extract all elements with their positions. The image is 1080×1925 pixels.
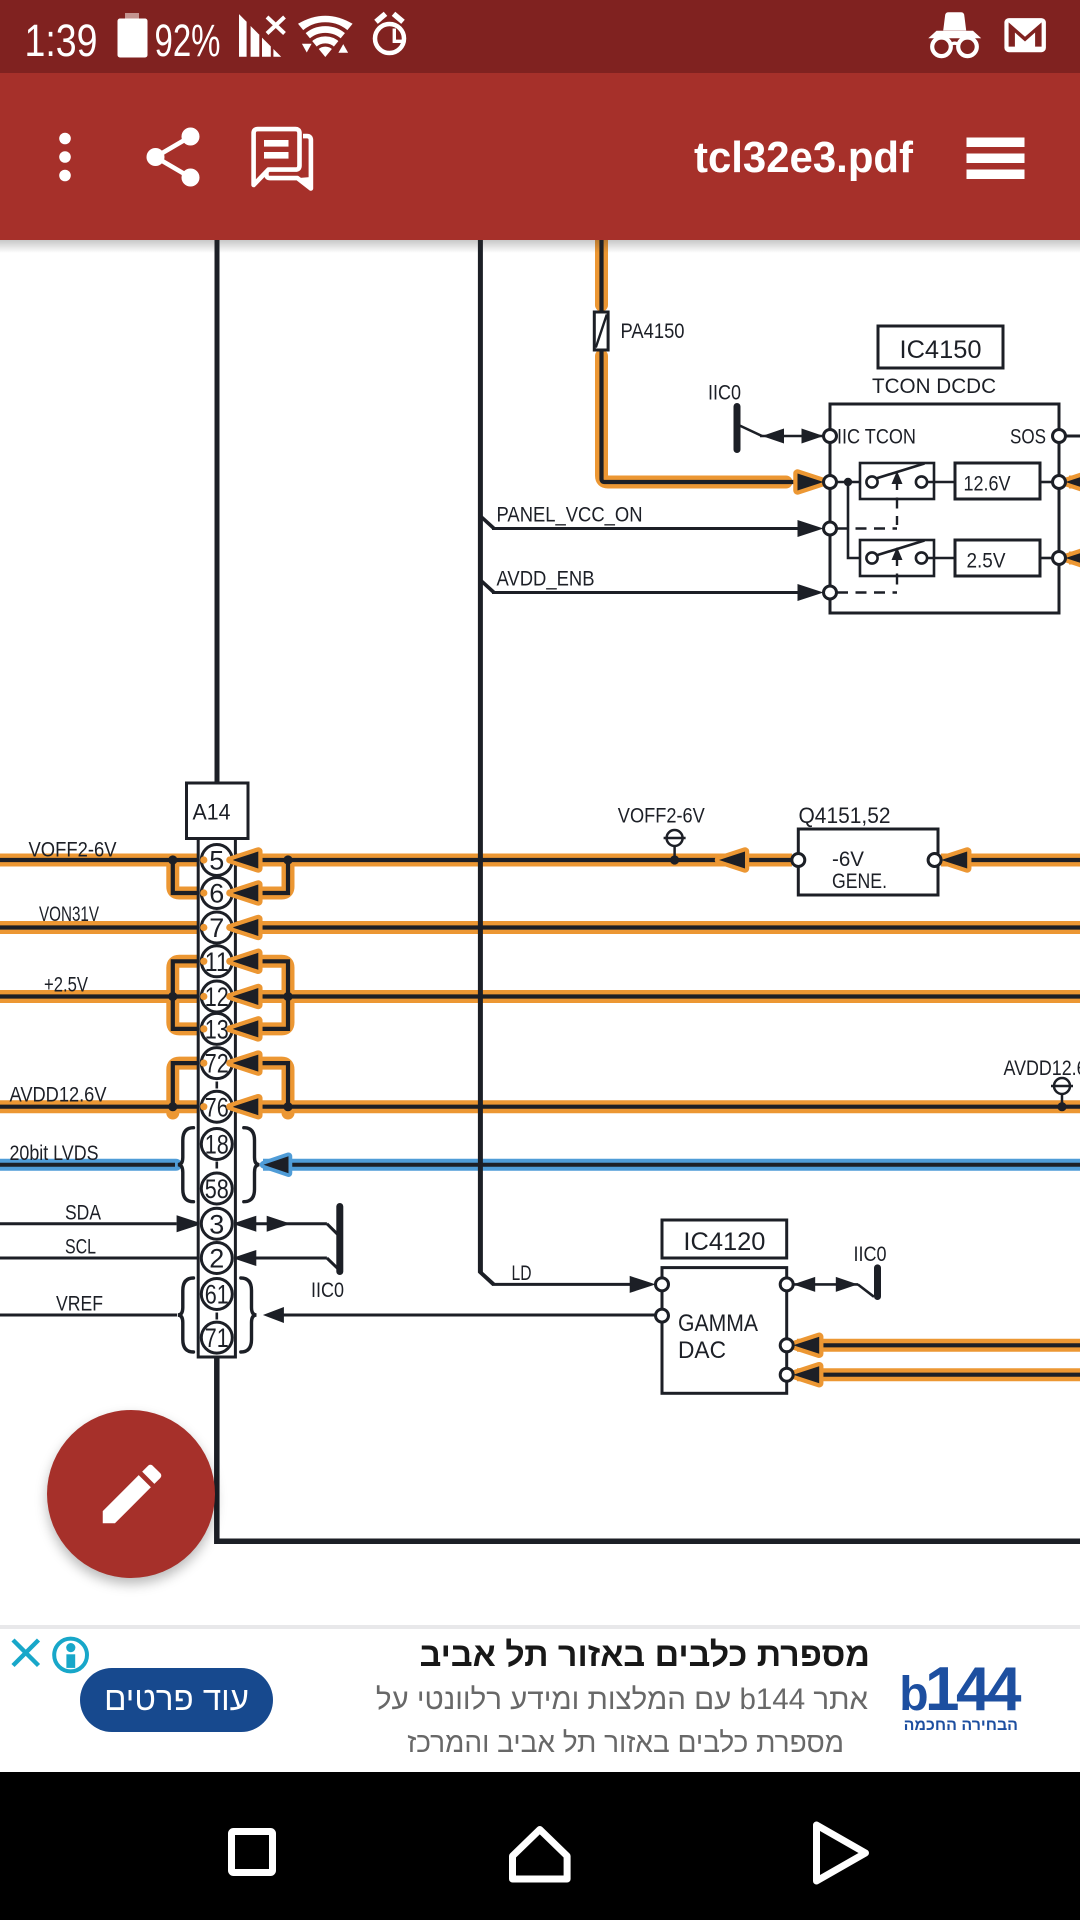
status bar xyxy=(0,0,1080,73)
pin 3 of A14 xyxy=(201,1208,232,1239)
wire highlight: +2.5V left loop pins 11-13 xyxy=(173,961,200,1029)
svg-text:IC4120: IC4120 xyxy=(683,1228,765,1256)
arrow VREF into right brace xyxy=(263,1307,284,1323)
wire LD horizontal into GAMMA DAC xyxy=(492,1283,631,1286)
pin PANEL_VCC_ON xyxy=(824,522,837,535)
wire core VOFF2-6V right loop xyxy=(258,860,288,893)
arrow IIC0 right at GAMMA DAC xyxy=(836,1277,858,1292)
svg-text:VOFF2-6V: VOFF2-6V xyxy=(29,839,117,862)
pin 12 of A14 xyxy=(201,981,232,1012)
wire 2.5V box to pin xyxy=(1040,557,1053,560)
pin 13 of A14 xyxy=(201,1013,232,1044)
wire VREF from GAMMA DAC xyxy=(283,1314,656,1317)
wire SCL left xyxy=(0,1257,217,1260)
svg-text:72: 72 xyxy=(205,1049,229,1079)
wire core VOFF2-6V left loop xyxy=(173,860,204,893)
wire highlight: orange feed below PA4150 to IC4150 pin xyxy=(602,356,787,482)
pin IIC TCON xyxy=(824,430,837,443)
wire highlight: 20bit LVDS left segment (blue) xyxy=(0,1159,176,1171)
arrow AVDD_ENB into IC4150 xyxy=(798,584,824,601)
arrow SCL out of pin 2 xyxy=(232,1250,256,1266)
wire highlight: +2.5V net xyxy=(0,990,1080,1003)
switch 1 dashed control arrow xyxy=(896,479,898,525)
orange wire end at pin 5 xyxy=(200,856,207,863)
pin Q4151 right xyxy=(928,854,941,867)
svg-text:VOFF2-6V: VOFF2-6V xyxy=(618,805,705,828)
brace left of pins 61-71 xyxy=(178,1278,194,1352)
toolbar xyxy=(0,73,1080,240)
svg-text:12.6V: 12.6V xyxy=(964,473,1011,496)
test point AVDD12.6V xyxy=(1061,1094,1064,1104)
wire highlight: +2.5V right loop pins 11-13 xyxy=(252,961,288,1029)
arrow into pin 13 xyxy=(232,1020,258,1037)
junction dot inside IC4150 xyxy=(844,478,852,486)
orange wire end at pin 6 xyxy=(200,889,207,896)
arrow into pin 72 xyxy=(232,1055,258,1072)
svg-text:2: 2 xyxy=(209,1244,224,1274)
arrow orange into GAMMA DAC out1 xyxy=(793,1337,819,1354)
svg-text:TCON DCDC: TCON DCDC xyxy=(872,375,996,398)
IIC0 bus bar at IC4150 xyxy=(734,407,741,450)
wire switch1 to 12.6V box xyxy=(927,481,955,484)
svg-text:7: 7 xyxy=(209,913,224,943)
pin 61 of A14 xyxy=(201,1279,232,1310)
pin GAMMA IIC xyxy=(780,1278,793,1291)
svg-text:5: 5 xyxy=(209,846,224,876)
junction dot AVDD12.6V left xyxy=(168,1102,177,1111)
wire chamfer PANEL_VCC_ON branch xyxy=(481,517,494,529)
arrow IIC0 left at GAMMA DAC xyxy=(793,1277,815,1292)
wire IIC0 diagonal at IC4150 xyxy=(739,425,763,436)
pin orange feed xyxy=(824,476,837,489)
junction dot VOFF2-6V left xyxy=(168,855,177,864)
test point VOFF2-6V xyxy=(673,846,676,857)
svg-text:SOS: SOS xyxy=(1010,426,1046,449)
pin GAMMA VREF xyxy=(656,1309,669,1322)
switch box 2 xyxy=(860,540,934,576)
wire highlight: VOFF2-6V net right of Q4151 xyxy=(941,854,1080,867)
regulator 12.6V box xyxy=(955,463,1040,499)
wire PANEL_VCC_ON horizontal xyxy=(492,527,799,530)
wire highlight: 2.5V output of IC4150 xyxy=(1069,552,1080,565)
pin Q4151 left xyxy=(792,854,805,867)
svg-text:SDA: SDA xyxy=(65,1202,101,1225)
orange wire end at pin 11 xyxy=(200,958,207,965)
pin 71 of A14 xyxy=(201,1322,232,1353)
svg-text:13: 13 xyxy=(205,1015,229,1045)
wire core LVDS left xyxy=(0,1163,175,1167)
wire core AVDD12.6V right loop xyxy=(258,1063,288,1107)
wire highlight: VOFF2-6V net left of Q4151 xyxy=(0,854,792,867)
pin 12.6V out xyxy=(1053,476,1066,489)
wire highlight: orange 12.6V feed vertical (net to PA4150) xyxy=(595,240,608,305)
wire connector bottom to page bottom rail xyxy=(217,1357,1080,1541)
wire VREF left xyxy=(0,1314,177,1317)
svg-text:IC4150: IC4150 xyxy=(900,336,982,364)
wire core GAMMA DAC out2 xyxy=(796,1373,1080,1377)
junction dot VOFF2-6V right xyxy=(283,855,292,864)
switch 2 pin left xyxy=(866,552,877,563)
op-amp GAMMA DAC box xyxy=(662,1268,787,1394)
svg-text:IIC0: IIC0 xyxy=(311,1279,344,1302)
junction dot AVDD12.6V right xyxy=(283,1102,292,1111)
arrow SDA toward IIC0 xyxy=(267,1216,291,1232)
fuse PA4150 xyxy=(594,312,608,350)
IIC0 bus bar near connector xyxy=(336,1207,343,1272)
pin GAMMA LD xyxy=(656,1278,669,1291)
toolbar shadow xyxy=(0,240,1080,253)
arrow LD into GAMMA DAC pin xyxy=(630,1276,656,1293)
arrow into pin 6 xyxy=(232,885,258,902)
wire highlight: 20bit LVDS right segment (blue) xyxy=(263,1159,1080,1171)
arrow IIC0 left at IC4150 xyxy=(762,429,784,444)
pin GAMMA out1 xyxy=(780,1339,793,1352)
ad banner xyxy=(0,1625,1080,1772)
svg-text:IIC0: IIC0 xyxy=(708,382,741,405)
pin 5 of A14 xyxy=(201,845,232,876)
svg-text:71: 71 xyxy=(205,1323,229,1353)
svg-text:PA4150: PA4150 xyxy=(621,320,685,343)
label box IC4120 xyxy=(662,1220,787,1258)
brace left of pins 18-58 xyxy=(178,1128,194,1202)
svg-text:+2.5V: +2.5V xyxy=(44,974,88,997)
wire highlight: GAMMA DAC output 2 xyxy=(797,1368,1080,1381)
orange wire end at pin 7 xyxy=(200,924,207,931)
wire core +2.5V left loop xyxy=(173,961,204,1029)
svg-text:20bit LVDS: 20bit LVDS xyxy=(10,1142,99,1165)
switch 2 pin right xyxy=(916,552,927,563)
svg-text:-6V: -6V xyxy=(832,848,864,871)
svg-text:VON31V: VON31V xyxy=(39,903,99,926)
svg-text:58: 58 xyxy=(205,1174,229,1204)
connector A14 strip xyxy=(198,839,235,1358)
pin 7 of A14 xyxy=(201,912,232,943)
wire highlight: VOFF2-6V right loop pin5-pin6 xyxy=(252,860,288,893)
wire IIC0 to IIC TCON pin xyxy=(760,435,824,438)
wire core GAMMA DAC out1 xyxy=(796,1343,1080,1347)
dash between pins 61 and 71 xyxy=(216,1313,219,1320)
svg-text:PANEL_VCC_ON: PANEL_VCC_ON xyxy=(497,504,643,527)
wire pin to switch 1 xyxy=(837,481,867,484)
dash between pins 72 and 76 xyxy=(216,1082,219,1089)
wire core AVDD12.6V xyxy=(0,1105,1080,1109)
dash between pins 18 and 58 xyxy=(216,1162,219,1169)
svg-text:2.5V: 2.5V xyxy=(967,550,1006,573)
arrow 12.6V output xyxy=(1066,474,1080,491)
svg-text:LD: LD xyxy=(512,1262,532,1285)
svg-text:18: 18 xyxy=(205,1130,229,1160)
FAB edit button xyxy=(47,1410,215,1578)
wire highlight: AVDD12.6V left loop pins 72-76 xyxy=(173,1063,200,1113)
arrow into pin 76 xyxy=(232,1098,258,1115)
pin 76 of A14 xyxy=(201,1091,232,1122)
wire SDA diagonal to IIC0 bar xyxy=(327,1224,338,1235)
svg-text:12: 12 xyxy=(205,982,229,1012)
svg-text:Q4151,52: Q4151,52 xyxy=(799,803,891,828)
nav bar xyxy=(0,1772,1080,1920)
svg-text:AVDD12.6V: AVDD12.6V xyxy=(10,1084,107,1107)
dashed line PANEL_VCC_ON control xyxy=(837,527,897,529)
wire long vertical bus from top xyxy=(478,240,483,1272)
pin SOS xyxy=(1053,430,1066,443)
wire IIC0 link at GAMMA DAC xyxy=(793,1283,858,1286)
pin 11 of A14 xyxy=(201,946,232,977)
svg-text:6: 6 xyxy=(209,879,224,909)
arrow orange feed into IC4150 pin xyxy=(798,474,824,491)
svg-text:76: 76 xyxy=(205,1092,229,1122)
arrow into pin 12 xyxy=(232,988,258,1005)
svg-text:IIC0: IIC0 xyxy=(854,1243,887,1266)
switch 1 lever xyxy=(876,464,925,479)
wire highlight: VOFF2-6V left loop pin5-pin6 xyxy=(173,860,200,893)
IC4150 TCON DCDC box xyxy=(830,404,1059,613)
pin AVDD_ENB xyxy=(824,586,837,599)
wire SCL right segment xyxy=(232,1257,327,1260)
regulator 2.5V box xyxy=(955,540,1040,576)
wire highlight: AVDD12.6V right loop pins 72-76 xyxy=(252,1063,288,1113)
wire AVDD_ENB horizontal xyxy=(492,591,799,594)
svg-text:AVDD12.6V: AVDD12.6V xyxy=(1004,1057,1080,1080)
pin 6 of A14 xyxy=(201,878,232,909)
wire core VOFF2-6V right of Q4151 xyxy=(941,858,1080,862)
wire SCL diagonal to IIC0 bar xyxy=(327,1258,338,1269)
wire 12.6V box to pin xyxy=(1040,481,1053,484)
wire highlight: VON31V net xyxy=(0,921,1080,934)
svg-text:GENE.: GENE. xyxy=(832,870,887,893)
wire core AVDD12.6V left loop xyxy=(173,1063,204,1107)
pin 2.5V out xyxy=(1053,552,1066,565)
wire SDA right segment xyxy=(232,1222,327,1225)
wire A14 connector feed vertical xyxy=(215,240,220,786)
transistor Q4151,52 box xyxy=(798,829,938,895)
orange wire end at pin 12 xyxy=(200,993,207,1000)
arrow into Q4151 left side xyxy=(719,852,745,869)
arrow into pin 11 xyxy=(232,953,258,970)
brace right of pins 61-71 xyxy=(241,1278,257,1352)
wire core orange feed lower with corner xyxy=(602,350,799,482)
arrow IIC0 right into IIC TCON pin xyxy=(802,429,824,444)
wire SDA left xyxy=(0,1222,177,1225)
svg-text:3: 3 xyxy=(209,1209,224,1239)
arrow LVDS blue into brace xyxy=(264,1156,289,1173)
arrow SDA out of pin 3 xyxy=(232,1216,256,1232)
switch 1 pin right xyxy=(916,476,927,487)
orange wire end at pin 13 xyxy=(200,1025,207,1032)
svg-text:VREF: VREF xyxy=(56,1293,103,1316)
arrow 2.5V output xyxy=(1066,550,1080,567)
orange wire end at pin 76 xyxy=(200,1103,207,1110)
wire chamfer AVDD_ENB branch xyxy=(481,581,494,593)
wire highlight: AVDD12.6V net xyxy=(0,1100,1080,1113)
wire core VOFF2-6V left of Q4151 xyxy=(0,858,793,862)
pin 18 of A14 xyxy=(201,1129,232,1160)
wire internal to switch 2 xyxy=(848,484,866,558)
switch 2 dashed control arrow xyxy=(896,555,898,589)
orange wire end at pin 72 xyxy=(200,1060,207,1067)
pin GAMMA out2 xyxy=(780,1368,793,1381)
wire highlight: GAMMA DAC output 1 xyxy=(797,1339,1080,1352)
arrow orange into GAMMA DAC out2 xyxy=(793,1366,819,1383)
wire SOS stub right xyxy=(1066,435,1080,438)
wire core orange feed upper xyxy=(599,240,603,312)
pin 58 of A14 xyxy=(201,1173,232,1204)
svg-text:AVDD_ENB: AVDD_ENB xyxy=(497,568,595,591)
pin 72 of A14 xyxy=(201,1048,232,1079)
wire core LVDS right xyxy=(263,1163,1080,1167)
label box IC4150 xyxy=(878,326,1003,368)
svg-text:SCL: SCL xyxy=(65,1236,96,1259)
switch 1 pin left xyxy=(866,476,877,487)
wire core +2.5V right loop xyxy=(258,961,288,1029)
wire core VON31V xyxy=(0,925,1080,929)
wire chamfer into LD line xyxy=(479,1271,493,1284)
brace right of pins 18-58 xyxy=(244,1128,260,1202)
switch 2 lever xyxy=(876,541,925,556)
arrow into pin 5 xyxy=(232,852,258,869)
connector A14 box xyxy=(187,783,249,839)
switch box 1 xyxy=(860,463,934,499)
svg-text:GAMMA: GAMMA xyxy=(678,1310,758,1337)
svg-text:11: 11 xyxy=(205,947,229,977)
arrow into pin 7 xyxy=(232,919,258,936)
IIC0 bus bar at GAMMA DAC xyxy=(874,1268,881,1297)
junction dot +2.5V left xyxy=(168,992,177,1001)
wire switch2 to 2.5V box xyxy=(927,557,955,560)
dashed line AVDD_ENB control xyxy=(837,591,897,593)
junction dot +2.5V right xyxy=(283,992,292,1001)
svg-text:DAC: DAC xyxy=(678,1337,726,1364)
wire core +2.5V xyxy=(0,994,1080,998)
wire highlight: 12.6V output of IC4150 xyxy=(1069,476,1080,489)
arrow PANEL_VCC_ON into IC4150 xyxy=(798,520,824,537)
arrow into Q4151 right pin xyxy=(941,852,967,869)
svg-text:A14: A14 xyxy=(193,800,231,825)
svg-text:IIC TCON: IIC TCON xyxy=(837,426,916,449)
svg-text:61: 61 xyxy=(205,1280,229,1310)
pin 2 of A14 xyxy=(201,1243,232,1274)
arrow SDA into pin 3 xyxy=(177,1215,203,1232)
